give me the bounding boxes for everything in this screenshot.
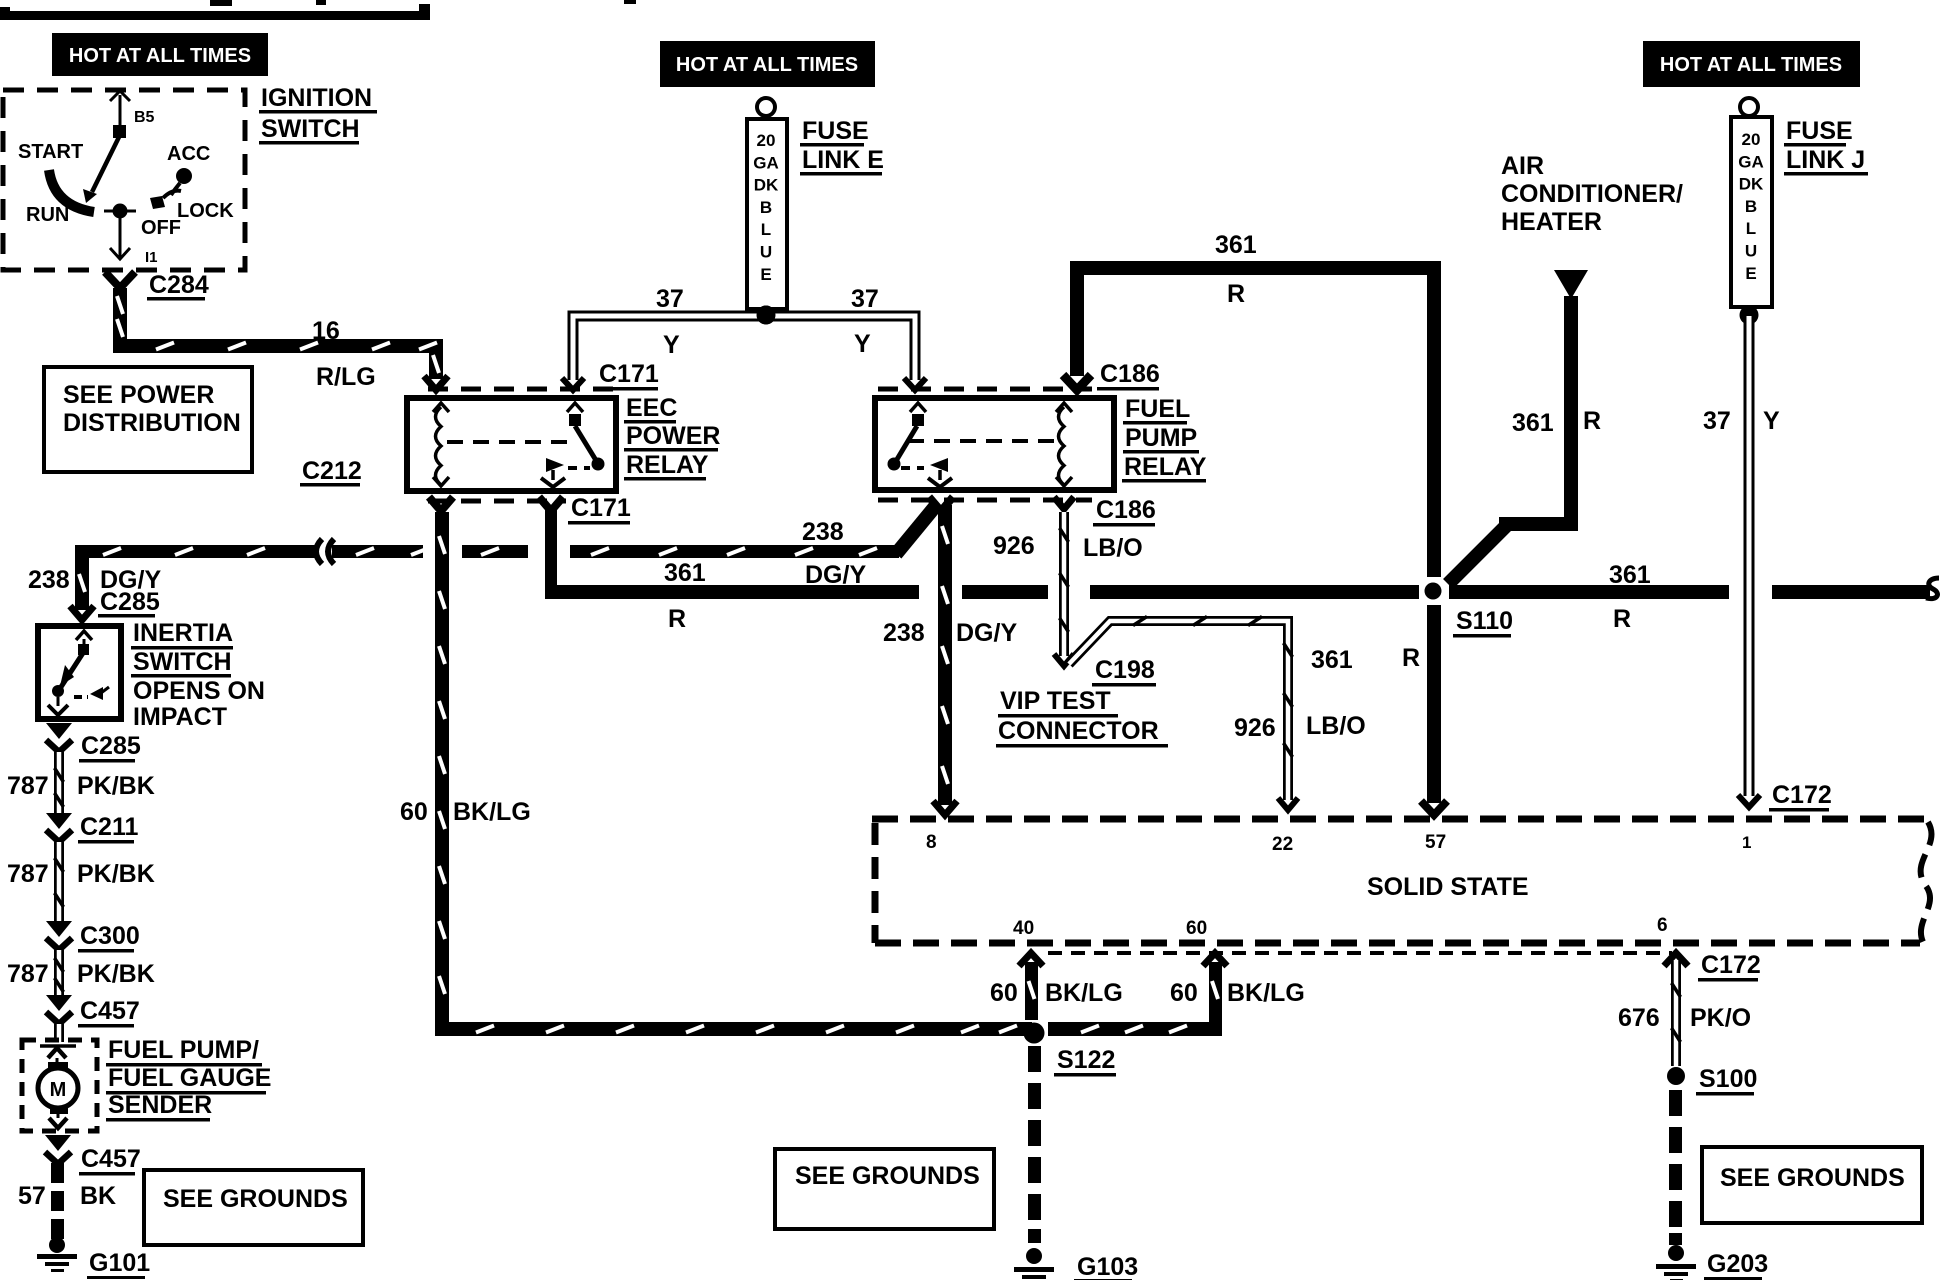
fuel pump/fuel gauge sender dashed outline [22, 1040, 97, 1131]
power tag HOT AT ALL TIMES (left) [52, 33, 268, 76]
svg-text:CONDITIONER/: CONDITIONER/ [1501, 180, 1683, 208]
svg-text:C300: C300 [80, 922, 140, 950]
svg-text:DK: DK [1739, 175, 1764, 194]
svg-text:IMPACT: IMPACT [133, 703, 227, 731]
connector C285 below inertia switch [46, 723, 72, 739]
wire 361 R corner to air conditioner [1499, 517, 1578, 531]
wire 787 PK/BK segment 3 [54, 950, 64, 996]
svg-text:HEATER: HEATER [1501, 208, 1602, 236]
fuel pump relay dashed actuator link [908, 439, 1058, 443]
svg-text:C186: C186 [1096, 496, 1156, 524]
svg-text:RELAY: RELAY [1124, 453, 1207, 481]
svg-text:8: 8 [926, 832, 937, 853]
svg-text:CONNECTOR: CONNECTOR [998, 717, 1159, 745]
EEC relay pin arrow to wire 361 [539, 497, 563, 511]
svg-text:C285: C285 [81, 732, 141, 760]
connector C186 (bottom) dashed line [878, 498, 1092, 503]
splice S110 [1425, 583, 1442, 600]
svg-text:G103: G103 [1077, 1253, 1138, 1280]
wire 361 R diagonal from S110 to AC feed [1448, 525, 1507, 584]
svg-text:HOT AT ALL TIMES: HOT AT ALL TIMES [1660, 54, 1842, 76]
svg-text:SEE GROUNDS: SEE GROUNDS [795, 1162, 980, 1190]
svg-text:S100: S100 [1699, 1065, 1757, 1093]
connector C457 below sender [45, 1135, 71, 1151]
svg-text:Y: Y [1763, 407, 1780, 435]
svg-text:1: 1 [1742, 833, 1751, 852]
svg-text:LINK J: LINK J [1786, 146, 1865, 174]
svg-text:Y: Y [854, 330, 871, 358]
wire 60 BK/LG from solid state pin 60 [1203, 953, 1227, 966]
fuel pump relay switch contact [910, 403, 926, 412]
svg-text:RELAY: RELAY [626, 451, 709, 479]
svg-text:SEE GROUNDS: SEE GROUNDS [1720, 1164, 1905, 1192]
wire 37 Y from fuse link E to EEC relay C171 [573, 316, 766, 380]
ground G103 symbol [1026, 1248, 1042, 1264]
svg-text:60: 60 [1170, 979, 1198, 1007]
solid state module dashed outline [872, 816, 1934, 823]
svg-text:C285: C285 [100, 588, 160, 616]
svg-text:37: 37 [656, 285, 684, 313]
connector C211 [46, 813, 72, 829]
note box SEE GROUNDS (left) [144, 1170, 363, 1245]
ignition switch START position arc [49, 170, 94, 212]
svg-text:OPENS ON: OPENS ON [133, 677, 265, 705]
svg-text:SEE GROUNDS: SEE GROUNDS [163, 1185, 348, 1213]
fuse link E body 20GA DK BLUE [747, 119, 787, 309]
inertia switch outline [38, 626, 121, 719]
svg-text:926: 926 [1234, 714, 1276, 742]
svg-text:S110: S110 [1456, 607, 1513, 635]
connector C171 (bottom) dashed line [428, 499, 566, 504]
svg-text:LB/O: LB/O [1083, 534, 1143, 562]
svg-text:FUEL PUMP/: FUEL PUMP/ [108, 1036, 259, 1064]
svg-text:ACC: ACC [167, 143, 210, 165]
ignition switch OFF contact [104, 210, 136, 213]
svg-text:DG/Y: DG/Y [956, 619, 1017, 647]
svg-text:60: 60 [990, 979, 1018, 1007]
svg-text:SEE POWER: SEE POWER [63, 381, 214, 409]
svg-text:R/LG: R/LG [316, 363, 376, 391]
EEC relay coil [436, 407, 442, 485]
splice S100 [1667, 1067, 1685, 1085]
wire 926 LB/O from fuel pump relay coil [1059, 512, 1069, 656]
inertia switch internals [76, 631, 92, 640]
svg-text:FUSE: FUSE [1786, 117, 1853, 145]
svg-text:START: START [18, 141, 83, 163]
svg-text:G203: G203 [1707, 1250, 1768, 1278]
svg-text:Y: Y [663, 331, 680, 359]
svg-text:C212: C212 [302, 457, 362, 485]
relay K1 EEC POWER RELAY outline [407, 398, 616, 491]
svg-text:926: 926 [993, 532, 1035, 560]
svg-text:HOT AT ALL TIMES: HOT AT ALL TIMES [69, 45, 251, 67]
svg-text:16: 16 [312, 317, 340, 345]
fuel pump motor M [40, 1044, 76, 1048]
svg-text:SWITCH: SWITCH [133, 648, 232, 676]
svg-text:C171: C171 [599, 360, 659, 388]
connector C284 [105, 272, 135, 288]
svg-text:238: 238 [28, 566, 70, 594]
wire 238 DG/Y left drop to inertia switch [75, 545, 89, 610]
svg-text:787: 787 [7, 772, 49, 800]
svg-text:LB/O: LB/O [1306, 712, 1366, 740]
wire 361 R horizontal main run [545, 585, 919, 599]
svg-text:SENDER: SENDER [108, 1091, 212, 1119]
wire 361 R from fuel pump relay to S110 top run [1070, 274, 1084, 376]
svg-text:60: 60 [400, 798, 428, 826]
svg-text:C457: C457 [81, 1145, 141, 1173]
svg-text:B: B [760, 198, 772, 217]
ignition switch terminal I1 wire [119, 218, 122, 257]
relay K2 FUEL PUMP RELAY outline [875, 398, 1114, 490]
arrowhead 238 into C285 [70, 606, 94, 620]
svg-text:BK/LG: BK/LG [1045, 979, 1123, 1007]
svg-text:R: R [1227, 280, 1245, 308]
svg-text:C284: C284 [149, 271, 209, 299]
svg-text:20: 20 [757, 131, 776, 150]
svg-text:VIP TEST: VIP TEST [1000, 687, 1111, 715]
ground wire from S122 to G103 dashed [1028, 1046, 1041, 1072]
wire 238 DG/Y vertical to solid state pin 8 [938, 505, 952, 805]
fuel pump relay pin arrow to wire 238 [929, 497, 953, 511]
svg-text:LOCK: LOCK [177, 200, 234, 222]
svg-text:B: B [1745, 197, 1757, 216]
wire 238 DG/Y diagonal to fuel pump relay [896, 503, 938, 554]
wire into fuel pump sender [54, 1024, 64, 1042]
svg-text:FUEL: FUEL [1125, 395, 1190, 423]
svg-text:C457: C457 [80, 997, 140, 1025]
svg-text:BK: BK [80, 1182, 116, 1210]
ignition switch wiper arm [92, 137, 119, 192]
junction dot at fuse link E [757, 306, 776, 325]
fuse link J body 20GA DK BLUE [1731, 117, 1772, 307]
ground wire from S100 to G203 dashed [1669, 1090, 1682, 1116]
arrowhead 361R into C186 [1063, 375, 1091, 390]
svg-text:BK/LG: BK/LG [1227, 979, 1305, 1007]
svg-text:LINK E: LINK E [802, 146, 884, 174]
svg-text:6: 6 [1657, 915, 1668, 936]
wire 60 BK/LG hatched from EEC relay [435, 512, 449, 1023]
svg-text:IGNITION: IGNITION [261, 84, 372, 112]
svg-text:R: R [1583, 407, 1601, 435]
splice S122 [1024, 1023, 1045, 1044]
svg-text:361: 361 [1311, 646, 1353, 674]
EEC relay switch contact [567, 403, 583, 412]
svg-text:40: 40 [1013, 918, 1034, 939]
arrowhead 361 into solid state pin 57 [1421, 801, 1447, 815]
power tag HOT AT ALL TIMES (center) [660, 41, 875, 87]
svg-text:R: R [1613, 605, 1631, 633]
ground G203 symbol [1668, 1245, 1684, 1261]
svg-text:R: R [668, 605, 686, 633]
svg-text:AIR: AIR [1501, 152, 1544, 180]
connector dashed line below solid state [1048, 951, 1672, 955]
svg-text:C172: C172 [1772, 781, 1832, 809]
wire 676 PK/O from solid state pin 6 [1664, 953, 1688, 966]
svg-text:PK/O: PK/O [1690, 1004, 1751, 1032]
svg-text:R: R [1402, 644, 1420, 672]
svg-text:DG/Y: DG/Y [805, 561, 866, 589]
svg-text:U: U [760, 243, 772, 262]
arrowhead 37Y into C171 [562, 378, 584, 390]
fuse link E eyelet [757, 98, 775, 116]
svg-text:361: 361 [664, 559, 706, 587]
svg-text:C198: C198 [1095, 656, 1155, 684]
svg-text:E: E [760, 265, 771, 284]
svg-text:E: E [1745, 264, 1756, 283]
svg-text:20: 20 [1742, 130, 1761, 149]
arrowhead into C171 pin [424, 376, 448, 390]
arrowhead 926 into C198 [1054, 654, 1074, 666]
svg-text:57: 57 [18, 1182, 46, 1210]
wire 361 R vertical from EEC relay [545, 507, 557, 592]
svg-text:GA: GA [1738, 152, 1764, 171]
svg-text:FUSE: FUSE [802, 117, 869, 145]
connector C457 (top) [46, 995, 72, 1011]
svg-text:M: M [50, 1079, 67, 1101]
junction dot at fuse link J [1740, 306, 1759, 325]
wire 37 Y from fuse link J to C172 [1744, 316, 1755, 796]
svg-text:L: L [761, 220, 771, 239]
svg-text:OFF: OFF [141, 217, 181, 239]
wire 238 DG/Y horizontal hatched run [75, 545, 316, 558]
svg-text:RUN: RUN [26, 204, 69, 226]
svg-text:B5: B5 [134, 109, 155, 126]
fuel pump relay coil [1059, 407, 1065, 485]
wire 57 BK dashed to ground [51, 1163, 64, 1183]
arrowhead 37Y into C186 [904, 378, 926, 390]
svg-text:INERTIA: INERTIA [133, 619, 233, 647]
svg-text:C186: C186 [1100, 360, 1160, 388]
svg-text:361: 361 [1512, 409, 1554, 437]
svg-text:PK/BK: PK/BK [77, 960, 155, 988]
svg-text:57: 57 [1425, 832, 1446, 853]
wire 361 R continuation hook [1926, 578, 1939, 599]
svg-text:I1: I1 [145, 249, 158, 266]
svg-text:238: 238 [802, 518, 844, 546]
inline connector on wire 238 [316, 539, 322, 564]
svg-text:DK: DK [754, 176, 779, 195]
svg-text:G101: G101 [89, 1249, 150, 1277]
svg-text:C171: C171 [571, 494, 631, 522]
svg-text:SWITCH: SWITCH [261, 115, 360, 143]
ignition switch LOCK contact [150, 196, 165, 209]
svg-text:L: L [1746, 219, 1756, 238]
svg-text:787: 787 [7, 960, 49, 988]
svg-text:POWER: POWER [626, 422, 720, 450]
note box SEE GROUNDS (middle) [775, 1149, 994, 1229]
svg-text:676: 676 [1618, 1004, 1660, 1032]
svg-text:PK/BK: PK/BK [77, 860, 155, 888]
EEC relay dashed actuator link [447, 440, 569, 444]
svg-text:C211: C211 [80, 813, 138, 841]
wire 361 R from S110 down to solid state pin 57 [1427, 605, 1441, 803]
svg-text:361: 361 [1215, 231, 1257, 259]
ignition switch ACC contact [176, 168, 192, 184]
connector C186 (top) dashed line [878, 387, 1092, 392]
cropped element top bar [0, 11, 430, 20]
svg-text:PUMP: PUMP [1125, 424, 1197, 452]
note box SEE POWER DISTRIBUTION [44, 367, 252, 472]
arrowhead 37Y into C172 [1738, 795, 1760, 807]
svg-text:787: 787 [7, 860, 49, 888]
svg-text:238: 238 [883, 619, 925, 647]
wire 787 PK/BK segment 1 [54, 752, 64, 815]
fuel pump relay pin arrow to wire 926 [1054, 497, 1074, 509]
svg-text:GA: GA [753, 153, 779, 172]
arrowhead 926 into solid state pin 22 [1278, 798, 1298, 810]
connector C300 [46, 921, 72, 937]
svg-text:DISTRIBUTION: DISTRIBUTION [63, 409, 241, 437]
svg-text:S122: S122 [1057, 1046, 1115, 1074]
svg-text:361: 361 [1609, 561, 1651, 589]
svg-text:FUEL GAUGE: FUEL GAUGE [108, 1064, 271, 1092]
fuse link J eyelet [1740, 98, 1758, 116]
wire 37 Y from fuse link E to fuel pump relay C186 [766, 316, 915, 380]
connector C171 (top) dashed line [428, 387, 618, 392]
air conditioner feed arrow [1554, 270, 1588, 299]
power tag HOT AT ALL TIMES (right) [1643, 41, 1860, 87]
ignition switch terminal B5 wire [119, 95, 122, 131]
svg-text:C172: C172 [1701, 951, 1761, 979]
junction dot at fuse link E [757, 306, 776, 325]
wire 787 PK/BK segment 2 [54, 842, 64, 921]
svg-text:22: 22 [1272, 834, 1293, 855]
svg-text:37: 37 [1703, 407, 1731, 435]
note box SEE GROUNDS (right) [1702, 1147, 1922, 1223]
arrowhead 238 into solid state pin 8 [933, 801, 957, 815]
ignition switch pivot contact [113, 125, 126, 138]
svg-text:60: 60 [1186, 918, 1207, 939]
svg-text:U: U [1745, 242, 1757, 261]
ignition switch S1 dashed outline [3, 90, 245, 270]
svg-text:PK/BK: PK/BK [77, 772, 155, 800]
wire 16 R/LG hatched [113, 288, 127, 353]
ground G101 symbol [49, 1237, 65, 1253]
wire 926 LB/O from C198 to solid state pin 22 [1069, 621, 1288, 800]
wire 60 BK/LG from solid state pin 40 [1019, 953, 1043, 966]
svg-text:37: 37 [851, 285, 879, 313]
svg-text:BK/LG: BK/LG [453, 798, 531, 826]
svg-text:EEC: EEC [626, 394, 677, 422]
svg-text:SOLID STATE: SOLID STATE [1367, 873, 1529, 901]
EEC relay pin arrow to wire 60 [429, 497, 453, 511]
svg-text:HOT AT ALL TIMES: HOT AT ALL TIMES [676, 54, 858, 76]
